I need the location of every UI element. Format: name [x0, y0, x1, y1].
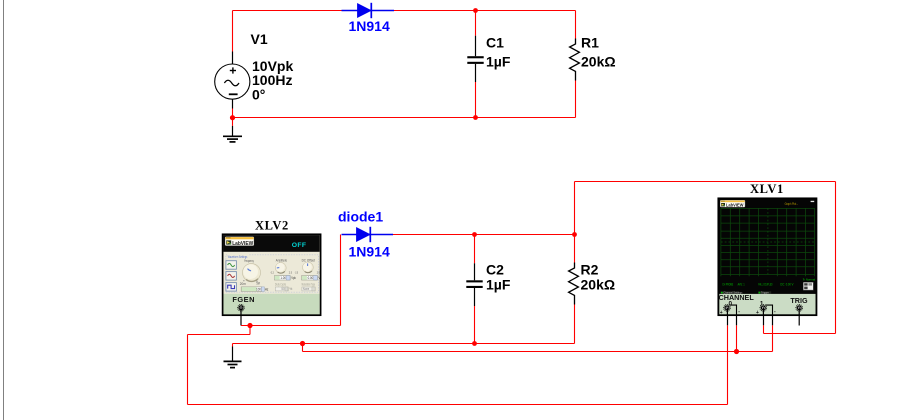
wire CH1 minus vertical [772, 325, 774, 351]
svg-text:1µF: 1µF [486, 277, 511, 293]
svg-text:1.00: 1.00 [280, 276, 286, 280]
terminal CHANNEL 0 [724, 305, 731, 312]
svg-text:0°: 0° [252, 86, 265, 102]
svg-text:diode1: diode1 [338, 208, 383, 224]
junction ground rail / C2 bottom [472, 341, 477, 346]
junction CH0 minus on ground line [734, 349, 739, 354]
wire R1 bottom to bottom rail [575, 81, 577, 118]
waveform settings dashed frame [226, 255, 319, 292]
wire V1 bottom red segment [232, 109, 234, 126]
wire top-left vertical (V1 to top rail) [232, 11, 234, 52]
svg-text:-2.5: -2.5 [295, 271, 299, 275]
small side display [803, 282, 813, 290]
wire branch left [188, 334, 251, 336]
wire CH1 plus vertical [763, 325, 765, 333]
junction diode cathode / R2 [572, 232, 577, 237]
instrument XLV1 (LabVIEW oscilloscope / graph) [718, 198, 816, 315]
svg-text:Graph Plot...: Graph Plot... [785, 202, 799, 206]
wire FGEN branch down [249, 326, 251, 335]
duty cycle box [275, 283, 292, 291]
svg-text:LabVIEW: LabVIEW [726, 202, 744, 207]
junction FGEN output branch [247, 323, 252, 328]
svg-text:20kΩ: 20kΩ [581, 54, 616, 70]
svg-text:50: 50 [281, 287, 284, 291]
diode D1 1N914 (top) [342, 3, 395, 18]
readout row [722, 283, 794, 287]
screen centre cursor lines [767, 208, 769, 276]
junction bottom rail / C1 [473, 115, 478, 120]
wire top rail left segment [233, 10, 343, 12]
waveform buttons [226, 261, 237, 291]
svg-text:FALL COUPLED: FALL COUPLED [758, 283, 773, 287]
svg-text:XLV2: XLV2 [255, 219, 289, 233]
wire CH0 minus vertical [736, 325, 738, 351]
svg-text:Modulation Type: Modulation Type [302, 283, 315, 287]
svg-text:V1: V1 [251, 31, 268, 47]
svg-text:2.5: 2.5 [317, 271, 320, 275]
junction V1 bottom [230, 115, 235, 120]
svg-text:DC: 0.00 V: DC: 0.00 V [780, 283, 794, 287]
svg-text:None: None [303, 287, 309, 291]
wire CH0 terminal internal stub [726, 308, 728, 315]
terminal FGEN output [238, 305, 245, 312]
modulation type box [302, 283, 316, 291]
wire CH1 minus stub (black) [772, 315, 774, 326]
junction ground rail branch [300, 341, 305, 346]
wire long bottom rail [188, 404, 728, 406]
svg-text:C2: C2 [486, 262, 504, 278]
svg-text:↻ Normal: ↻ Normal [803, 277, 816, 281]
svg-text:0.00: 0.00 [308, 276, 314, 280]
wire CH0 plus stub (black) [727, 315, 729, 326]
oscilloscope screen grid [721, 208, 815, 276]
wire up to CH0 plus [727, 325, 729, 404]
svg-text:XLV1: XLV1 [750, 182, 784, 196]
junction top rail / C1 [473, 8, 478, 13]
ground (top circuit) [223, 126, 242, 142]
svg-text:1N914: 1N914 [349, 243, 390, 259]
wire diode1 cathode to R2 junction [393, 234, 575, 236]
svg-text:0.2: 0.2 [271, 271, 274, 275]
wire XLV1 right vertical down [835, 182, 837, 334]
svg-text:Amplitude: Amplitude [276, 258, 287, 262]
frequency knob [240, 259, 261, 286]
svg-text:1µF: 1µF [486, 54, 511, 70]
frequency display [241, 287, 268, 292]
diode D2 diode1 1N914 [342, 227, 394, 242]
junction diode cathode / C2 [472, 232, 477, 237]
wire CH1 minus hook [766, 305, 773, 315]
svg-text:R1: R1 [581, 35, 599, 51]
wire CH0 minus hook [730, 305, 737, 315]
svg-text:Duty Cycle: Duty Cycle [275, 283, 286, 287]
svg-text:20m: 20m [240, 282, 246, 286]
svg-text:Vpk: Vpk [291, 276, 296, 280]
terminal TRIG [796, 305, 803, 312]
wire FGEN output horizontal [241, 325, 341, 327]
svg-text:LabVIEW: LabVIEW [232, 241, 254, 247]
DC offset knob [295, 258, 322, 280]
wire ground branch down [302, 344, 304, 352]
capacitor C2 [466, 235, 482, 344]
svg-text:R2: R2 [581, 262, 599, 278]
wire FGEN output stub (black) [240, 315, 242, 326]
wire ground rail [233, 343, 575, 345]
svg-text:1N914: 1N914 [349, 18, 390, 34]
svg-text:20kΩ: 20kΩ [581, 277, 616, 293]
LabVIEW badge [225, 237, 254, 247]
wire up to diode1 anode [340, 235, 342, 326]
svg-text:CH PROBE: CH PROBE [722, 283, 734, 287]
pin polarity marks [720, 309, 776, 316]
tabs [720, 291, 771, 294]
resistor R2 [569, 235, 579, 344]
wire across top to XLV1 [575, 181, 836, 183]
terminal CHANNEL 1 [760, 305, 767, 312]
wire R2 junction up [574, 182, 576, 235]
instrument border [223, 234, 321, 315]
svg-text:CHANNEL: CHANNEL [719, 293, 755, 302]
wire C1 top red segment [475, 11, 477, 36]
wire top rail right segment [394, 10, 576, 12]
bottom connector panel [719, 294, 815, 315]
wire ground rail to CH minus [303, 351, 773, 353]
instrument border [718, 198, 816, 315]
svg-text:%: % [289, 287, 292, 291]
svg-text:AVG: 1: AVG: 1 [738, 283, 745, 287]
wire CH1 terminal internal stub [762, 308, 764, 315]
capacitor C1 [467, 36, 483, 82]
svg-text:C1: C1 [486, 35, 504, 51]
svg-text:FGEN: FGEN [232, 295, 255, 304]
svg-text:OFF: OFF [292, 242, 307, 249]
svg-text:Hz: Hz [265, 287, 269, 291]
wire FGEN terminal internal stub [240, 308, 242, 315]
wire TRIG terminal internal stub [798, 308, 800, 315]
source V1 (AC voltage source) [215, 52, 250, 109]
wire right vertical into R1 [575, 11, 577, 39]
svg-text:TRIG: TRIG [790, 296, 808, 305]
wire C1 bottom red segment [475, 82, 477, 118]
instrument XLV2 (LabVIEW function generator FGEN) [223, 234, 322, 315]
svg-text:5M: 5M [256, 282, 260, 286]
wire CH1 plus stub (black) [763, 315, 765, 326]
wire far-left vertical [187, 335, 189, 405]
LabVIEW badge [720, 200, 745, 207]
svg-text:Frequency: Frequency [244, 259, 254, 263]
resistor R1 [570, 39, 580, 81]
svg-text:100: 100 [256, 288, 261, 292]
wire bottom rail [233, 117, 576, 119]
wire to CH1 plus [764, 333, 836, 335]
wire TRIG stub (black, unconnected) [798, 315, 800, 326]
svg-text:2.5: 2.5 [289, 271, 292, 275]
wire CH0 minus stub (black) [736, 315, 738, 326]
ground (bottom circuit) [224, 344, 242, 368]
amplitude knob [271, 258, 296, 280]
